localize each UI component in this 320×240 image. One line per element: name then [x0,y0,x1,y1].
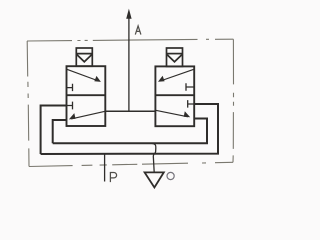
label A [135,26,141,35]
V2 top cell blocked port [186,83,194,91]
valve V2 middle divider [155,94,194,96]
enclosure dashed border top [27,39,233,41]
enclosure dashed border right [232,39,235,162]
wire: V1 upper-left port to outer loop [41,106,67,155]
wire: exhaust drop (S-jog) [152,143,156,172]
wire: P stub [104,154,106,182]
wire: A-port link between valves [105,110,155,112]
V1 top cell blocked port [67,84,73,91]
exhaust outlet triangle O [145,172,164,187]
label P [110,173,116,183]
enclosure dashed border bottom [29,162,233,166]
valve V1 middle divider [67,94,106,96]
enclosure dashed border left [27,41,29,167]
V2 bottom cell flow arrow [156,110,188,117]
arrowhead at port A [126,9,131,19]
label O [167,172,174,179]
valve V2 body (right 3/2 valve) [155,66,194,126]
wire: port A vertical riser [128,18,130,112]
V2 top cell flow arrow [160,69,194,81]
V1 bottom cell blocked port [67,102,73,110]
pilot actuator on V2 [167,48,183,66]
wire: inner bottom bus (to exhaust) [53,119,207,144]
V1 bottom cell flow arrow [71,111,105,119]
valve V1 body (left 3/2 valve) [67,66,106,126]
wire: outer bottom bus (P supply) [41,104,218,154]
V1 top cell flow arrow [67,69,99,81]
pilot actuator on V1 [76,48,92,66]
V2 bottom cell blocked port [188,100,195,108]
wire: V1 lower-left port to inner loop [53,120,67,143]
